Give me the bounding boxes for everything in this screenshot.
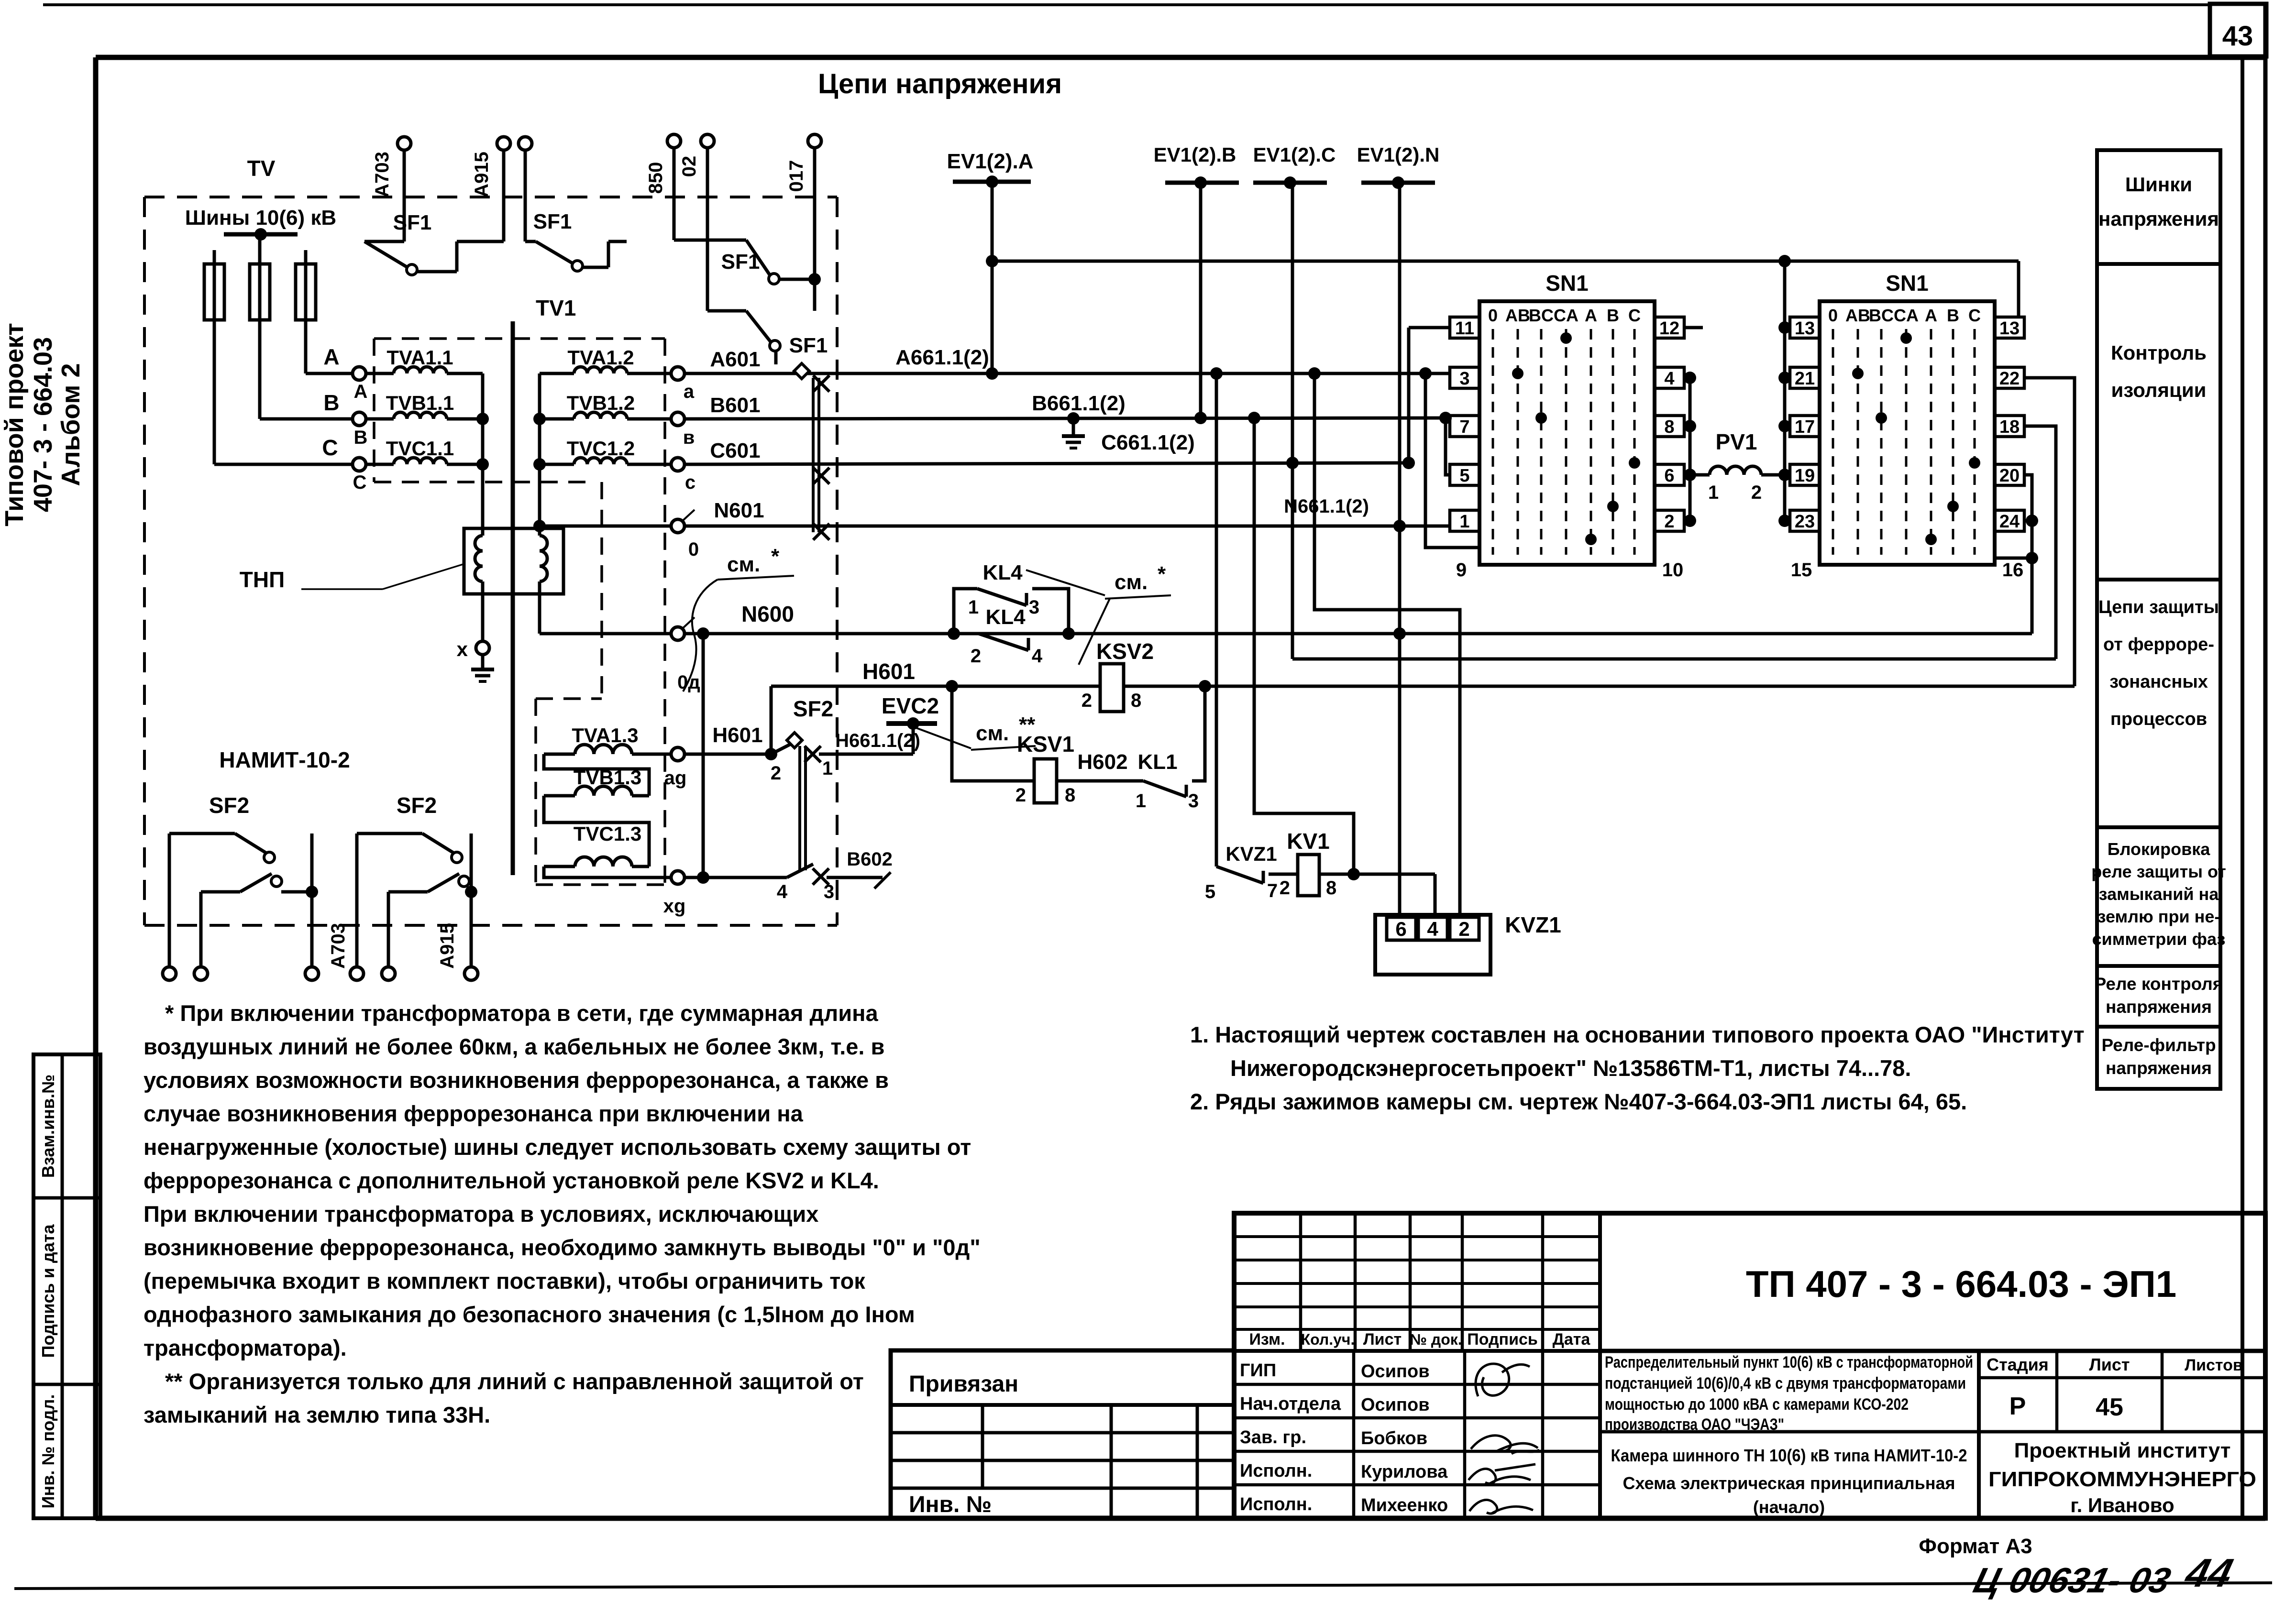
svg-text:SF1: SF1 [533, 210, 572, 233]
terminal 0д (N600) [671, 627, 684, 640]
junction H601-KSV1 branch [946, 680, 958, 692]
SN1 contact dots [1900, 332, 1912, 344]
svg-text:4: 4 [1664, 369, 1674, 389]
svg-text:мощностью до 1000 кВА с камера: мощностью до 1000 кВА с камерами КСО-202 [1605, 1395, 1909, 1414]
wire chain pins 4-8-6-2 [1689, 378, 1692, 521]
svg-text:Инв. №: Инв. № [909, 1492, 992, 1517]
svg-text:Блокировка: Блокировка [2108, 839, 2211, 859]
svg-text:B661.1(2): B661.1(2) [1032, 392, 1126, 415]
svg-text:4: 4 [777, 881, 788, 902]
inner right frame line [2241, 57, 2244, 1518]
svg-text:TVB1.1: TVB1.1 [386, 392, 454, 414]
wire pins 20-24-16 to N600 [2024, 475, 2032, 634]
switch SF1 group c pole 2 [706, 148, 709, 311]
svg-text:замыканий на землю типа 33Н.: замыканий на землю типа 33Н. [143, 1402, 490, 1427]
svg-text:Типовой проект: Типовой проект [0, 323, 29, 526]
terminal A703 top [397, 137, 411, 150]
fuse F3 phase A [296, 264, 316, 320]
switch SF1 group a [403, 150, 406, 241]
THP winding right [540, 536, 547, 581]
svg-text:19: 19 [1795, 466, 1815, 486]
svg-text:Зав. гр.: Зав. гр. [1240, 1427, 1306, 1447]
svg-text:TV: TV [247, 156, 276, 181]
svg-text:B601: B601 [710, 394, 760, 417]
svg-text:Камера шинного ТН 10(6) кВ тип: Камера шинного ТН 10(6) кВ типа НАМИТ-10… [1611, 1446, 1967, 1465]
TV1 core line [511, 321, 515, 875]
svg-text:SF2: SF2 [397, 793, 437, 818]
svg-text:Шины 10(6) кВ: Шины 10(6) кВ [185, 206, 336, 230]
svg-text:A: A [1585, 306, 1597, 325]
svg-text:TVC1.3: TVC1.3 [574, 822, 641, 845]
wire B661 to relay KV1 [1254, 418, 1354, 874]
jumper wire 0д to xg [702, 634, 705, 877]
svg-text:C601: C601 [710, 439, 760, 462]
svg-text:Бобков: Бобков [1361, 1428, 1427, 1448]
wire A601/A661.1(2) [684, 372, 1449, 375]
svg-text:1: 1 [1136, 790, 1146, 811]
no-connection slash on B602 [874, 872, 891, 888]
svg-text:45: 45 [2096, 1393, 2123, 1421]
terminal в [671, 412, 684, 426]
svg-text:напряжения: напряжения [2098, 208, 2219, 230]
wire EV1(2).B down [1199, 183, 1203, 418]
function box Реле контроля напряжения [2097, 966, 2220, 1027]
svg-text:Контроль: Контроль [2111, 341, 2207, 364]
object description cell [1600, 1430, 1979, 1434]
wire A661 to pin 9 [1425, 373, 1479, 548]
svg-text:2: 2 [1016, 785, 1026, 806]
svg-text:18: 18 [1999, 417, 2020, 437]
signature squiggles [1476, 1364, 1530, 1396]
svg-text:1: 1 [1708, 482, 1719, 503]
svg-text:23: 23 [1795, 512, 1815, 532]
ground on B661 [1067, 412, 1080, 425]
svg-text:3: 3 [1188, 790, 1199, 811]
svg-text:EVC2: EVC2 [882, 693, 939, 718]
terminal top aux [519, 137, 532, 150]
svg-text:однофазного замыкания до безоп: однофазного замыкания до безопасного зна… [143, 1302, 915, 1327]
svg-text:H602: H602 [1077, 750, 1127, 774]
svg-text:1: 1 [1459, 512, 1469, 532]
svg-text:N601: N601 [714, 499, 764, 522]
svg-text:A703: A703 [372, 152, 393, 197]
svg-text:1: 1 [822, 758, 833, 779]
svg-text:Изм.: Изм. [1249, 1330, 1285, 1349]
svg-text:B: B [1947, 306, 1959, 325]
svg-text:CA: CA [1554, 306, 1578, 325]
svg-text:KL4: KL4 [985, 605, 1026, 629]
svg-text:PV1: PV1 [1716, 429, 1757, 454]
svg-text:SN1: SN1 [1545, 271, 1588, 296]
svg-text:Дата: Дата [1553, 1330, 1591, 1349]
svg-text:4: 4 [1032, 646, 1043, 667]
svg-text:a: a [684, 381, 695, 402]
svg-text:10: 10 [1662, 559, 1684, 581]
SF2 terminals [168, 833, 171, 967]
svg-text:EV1(2).C: EV1(2).C [1253, 143, 1336, 166]
breaker SF2 in B602 [787, 864, 813, 877]
small table Привязан [891, 1350, 1234, 1518]
switch SF1 group b [502, 150, 506, 241]
SN1 contact dots [1560, 332, 1572, 344]
svg-text:от ферроре-: от ферроре- [2103, 635, 2214, 655]
wire EV1(2).N down to connector KVZ1 pin 6 [1398, 183, 1402, 915]
terminal A915 top [497, 137, 510, 150]
svg-text:x: x [457, 638, 468, 660]
svg-text:ТП 407 - 3 - 664.03 - ЭП1: ТП 407 - 3 - 664.03 - ЭП1 [1746, 1263, 2176, 1305]
wire pin 22 to H601 [2024, 378, 2075, 686]
wire N601/N661.1(2) [684, 525, 1449, 528]
svg-text:ГИП: ГИП [1240, 1360, 1276, 1381]
svg-text:8: 8 [1065, 785, 1075, 806]
svg-text:TVA1.2: TVA1.2 [567, 346, 634, 369]
svg-text:см.: см. [976, 722, 1009, 745]
svg-text:TV1: TV1 [536, 296, 576, 320]
svg-text:AB: AB [1505, 306, 1530, 325]
svg-text:2: 2 [1664, 512, 1674, 532]
svg-text:A: A [323, 344, 339, 369]
THP winding left [475, 536, 483, 581]
svg-text:6: 6 [1395, 918, 1406, 940]
svg-text:№ док.: № док. [1410, 1331, 1462, 1348]
svg-text:SN1: SN1 [1886, 271, 1928, 296]
svg-text:Кол.уч.: Кол.уч. [1301, 1331, 1355, 1348]
svg-text:N661.1(2): N661.1(2) [1284, 496, 1369, 517]
svg-text:3: 3 [1459, 369, 1469, 389]
svg-text:43: 43 [2222, 21, 2253, 52]
transformer THP box [464, 528, 563, 594]
svg-text:13: 13 [1999, 318, 2020, 339]
TV1 winding dashed box [374, 337, 665, 340]
svg-text:изоляции: изоляции [2111, 379, 2207, 401]
svg-text:850: 850 [645, 162, 666, 194]
wire H601 [771, 685, 2075, 688]
fuse F1 phase C [204, 264, 224, 320]
wire B602 [684, 876, 787, 879]
svg-text:0: 0 [1828, 306, 1838, 325]
contact KL4 upper branch [954, 589, 977, 634]
wire C601/C661.1(2) [684, 463, 1409, 464]
svg-text:H601: H601 [712, 724, 762, 747]
voltmeter switch SN1 body [1820, 301, 1995, 565]
svg-text:TVC1.1: TVC1.1 [386, 437, 454, 460]
switch SF1 group c pole 1 [673, 148, 676, 240]
svg-text:TVA1.1: TVA1.1 [386, 346, 453, 369]
svg-text:производства ОАО "ЧЭАЗ": производства ОАО "ЧЭАЗ" [1605, 1415, 1784, 1434]
wire phase B from fuse to TV1 [260, 417, 353, 421]
svg-text:Исполн.: Исполн. [1240, 1461, 1312, 1481]
svg-text:6: 6 [1664, 466, 1674, 486]
wire KSV1 branch [952, 686, 1034, 781]
svg-text:Исполн.: Исполн. [1240, 1494, 1312, 1514]
secondary neutral wire [538, 373, 541, 536]
TV cubicle dashed enclosure [144, 196, 837, 198]
svg-text:A: A [354, 381, 368, 402]
svg-text:Распределительный пункт 10(6): Распределительный пункт 10(6) кВ с транс… [1605, 1353, 1973, 1371]
wire 017 down [813, 148, 817, 279]
connector KVZ1 [1375, 915, 1490, 975]
SF2 terminals [355, 833, 359, 967]
svg-text:ТНП: ТНП [240, 567, 285, 592]
svg-text:A: A [1925, 306, 1937, 325]
svg-text:Листов: Листов [2185, 1356, 2243, 1374]
svg-text:20: 20 [1999, 466, 2020, 486]
svg-text:3: 3 [824, 881, 834, 902]
wire A661 to connector KVZ1 pin 2 [1314, 373, 1460, 915]
terminal ag [671, 747, 684, 761]
document number ТП 407-3-664.03-ЭП1 [1600, 1349, 2265, 1353]
svg-text:симметрии фаз: симметрии фаз [2092, 929, 2226, 949]
svg-text:BC: BC [1529, 306, 1554, 325]
svg-text:Привязан: Привязан [909, 1371, 1018, 1397]
terminal x [476, 641, 489, 655]
svg-text:феррорезонанса с дополнительно: феррорезонанса с дополнительной установк… [143, 1168, 879, 1193]
svg-text:13: 13 [1795, 318, 1815, 339]
svg-text:SF2: SF2 [209, 793, 249, 818]
main title block [1234, 1213, 2265, 1518]
TV1 tertiary dashed box [536, 697, 602, 700]
tertiary snake wire 3 [544, 866, 671, 877]
voltmeter switch SN1 body [1479, 301, 1655, 565]
svg-text:SF2: SF2 [793, 696, 833, 721]
primary neutral wire [481, 373, 485, 536]
wire KV1 to connector pin 4 [1319, 873, 1435, 876]
svg-text:C: C [1968, 306, 1981, 325]
wire A661 to relay KVZ1 contact [1215, 373, 1218, 866]
svg-text:C: C [1628, 306, 1641, 325]
sheet number box [2210, 4, 2266, 56]
svg-text:возникновение феррорезонанса,: возникновение феррорезонанса, необходимо… [143, 1235, 981, 1260]
svg-text:EV1(2).N: EV1(2).N [1357, 143, 1440, 166]
svg-text:Альбом 2: Альбом 2 [56, 363, 85, 486]
svg-text:(начало): (начало) [1753, 1497, 1825, 1517]
wire pin 13 right from EV1A line [2017, 261, 2020, 317]
svg-text:KSV2: KSV2 [1096, 639, 1154, 664]
svg-text:KVZ1: KVZ1 [1505, 912, 1561, 937]
svg-text:0: 0 [1488, 306, 1498, 325]
svg-text:2: 2 [1082, 690, 1092, 711]
svg-text:ГИПРОКОММУНЭНЕРГО: ГИПРОКОММУНЭНЕРГО [1988, 1468, 2256, 1491]
svg-text:B: B [354, 427, 368, 448]
svg-text:9: 9 [1456, 559, 1467, 581]
fuse F2 phase B [250, 264, 270, 320]
svg-text:2: 2 [971, 646, 981, 667]
wire H661.1(2) [819, 753, 913, 756]
svg-text:TVB1.2: TVB1.2 [567, 392, 635, 414]
svg-text:SF1: SF1 [721, 250, 760, 274]
svg-text:A915: A915 [471, 152, 492, 197]
wire B601/B661.1(2) [684, 418, 1449, 419]
svg-text:24: 24 [1999, 512, 2020, 532]
svg-text:3: 3 [1029, 597, 1039, 618]
svg-text:см.: см. [1115, 570, 1148, 594]
svg-text:*: * [771, 545, 780, 568]
svg-text:KV1: KV1 [1287, 829, 1329, 854]
function box Контроль изоляции [2097, 264, 2220, 580]
svg-text:Цепи защиты: Цепи защиты [2098, 597, 2219, 617]
svg-text:Осипов: Осипов [1361, 1361, 1430, 1382]
svg-text:2: 2 [771, 763, 781, 784]
svg-text:трансформатора).: трансформатора). [143, 1335, 347, 1360]
SN1 dashed columns [1492, 329, 1494, 555]
svg-text:21: 21 [1795, 369, 1815, 389]
SF2 linkage [798, 746, 801, 870]
wire H602 [1057, 779, 1143, 783]
svg-text:1: 1 [968, 597, 979, 618]
svg-text:16: 16 [2002, 559, 2024, 581]
svg-text:12: 12 [1659, 318, 1679, 339]
THP left lead to ground [481, 581, 485, 641]
svg-text:4: 4 [1427, 918, 1438, 940]
function box Реле-фильтр напряжения [2097, 1027, 2220, 1089]
svg-text:Проектный институт: Проектный институт [2014, 1439, 2231, 1462]
svg-text:407- 3 - 664.03: 407- 3 - 664.03 [29, 337, 57, 512]
SN1 left pin boxes [1450, 317, 1479, 338]
svg-text:реле защиты от: реле защиты от [2091, 862, 2226, 881]
svg-text:5: 5 [1205, 881, 1215, 902]
wire chain pins 13-21-17-19-23 to EV1A line [1783, 261, 1787, 521]
svg-text:зонансных: зонансных [2109, 672, 2208, 692]
terminal 02 [701, 134, 714, 148]
svg-text:г. Иваново: г. Иваново [2070, 1494, 2174, 1516]
bus 10(6) kV [224, 232, 298, 237]
wire EV1(2).C extension [1292, 658, 2056, 661]
tertiary snake wire 1 [544, 754, 649, 796]
svg-text:* При включении трансформатора: * При включении трансформатора в сети, г… [165, 1000, 879, 1026]
svg-text:НАМИТ-10-2: НАМИТ-10-2 [219, 747, 350, 772]
svg-text:При включении трансформатора в: При включении трансформатора в условиях,… [143, 1201, 818, 1227]
svg-text:0: 0 [688, 539, 699, 560]
svg-text:15: 15 [1791, 559, 1812, 581]
svg-text:условиях возможности возникно: условиях возможности возникновения ферро… [143, 1067, 889, 1093]
SN1 right pin boxes [1655, 317, 1684, 338]
svg-text:02: 02 [679, 156, 700, 177]
svg-text:Лист: Лист [1363, 1330, 1402, 1349]
svg-text:Нижегородскэнергосетьпроект": Нижегородскэнергосетьпроект" №13586ТМ-Т1… [1230, 1055, 1911, 1081]
svg-text:Нач.отдела: Нач.отдела [1240, 1394, 1341, 1414]
svg-text:A601: A601 [710, 348, 760, 371]
svg-text:Цепи напряжения: Цепи напряжения [818, 68, 1062, 99]
wire EV1(2).A down [991, 182, 994, 373]
junction 017 pole [808, 273, 821, 285]
svg-text:2: 2 [1458, 918, 1469, 940]
function box Шинки напряжения [2097, 150, 2220, 264]
svg-text:Формат А3: Формат А3 [1919, 1535, 2032, 1558]
svg-text:TVC1.2: TVC1.2 [567, 437, 635, 460]
terminal xg [671, 871, 684, 884]
SN1 left pin boxes [1790, 317, 1820, 338]
svg-text:2: 2 [1751, 482, 1762, 503]
svg-text:Взам.инв.№: Взам.инв.№ [38, 1075, 58, 1178]
svg-text:ag: ag [664, 768, 687, 789]
svg-text:Реле контроля: Реле контроля [2095, 974, 2223, 994]
svg-text:Подпись: Подпись [1467, 1330, 1538, 1349]
svg-text:Осипов: Осипов [1361, 1395, 1430, 1415]
svg-text:SF1: SF1 [393, 211, 432, 234]
svg-text:Шинки: Шинки [2125, 173, 2192, 196]
svg-text:случае возникновения феррорезо: случае возникновения феррорезонанса при … [143, 1101, 804, 1126]
svg-text:AB: AB [1845, 306, 1870, 325]
wire pin 12 stub [1684, 326, 1703, 329]
svg-text:KVZ1: KVZ1 [1225, 843, 1277, 865]
svg-text:SF1: SF1 [789, 334, 828, 357]
svg-text:7: 7 [1459, 417, 1469, 437]
svg-text:ненагруженные (холостые) шины: ненагруженные (холостые) шины следует ис… [143, 1134, 971, 1160]
terminal 017 [808, 134, 821, 148]
svg-text:*: * [1158, 562, 1166, 586]
svg-text:C: C [322, 435, 338, 460]
wire EV1(2).C down [1291, 183, 1294, 659]
svg-text:подстанцией 10(6)/0,4 кВ с дву: подстанцией 10(6)/0,4 кВ с двумя трансфо… [1605, 1374, 1966, 1393]
drawing sheet top edge line [43, 3, 2210, 6]
wire pin11 to C661 [1407, 328, 1411, 463]
svg-text:A703: A703 [328, 923, 349, 969]
svg-text:воздушных линий не более 60км,: воздушных линий не более 60км, а кабельн… [143, 1034, 884, 1059]
svg-text:землю при не-: землю при не- [2097, 907, 2220, 926]
function box Цепи защиты от феррорезонансных процессов [2097, 580, 2220, 827]
svg-text:8: 8 [1131, 690, 1141, 711]
svg-text:процессов: процессов [2110, 709, 2207, 729]
tertiary snake wire 2 [544, 796, 649, 866]
svg-text:** Организуется только для лин: ** Организуется только для линий с напра… [165, 1369, 864, 1394]
function box Блокировка реле защиты [2097, 827, 2220, 966]
svg-text:A661.1(2): A661.1(2) [895, 346, 989, 369]
left attribute boxes column [33, 1054, 100, 1518]
svg-text:Лист: Лист [2089, 1355, 2130, 1374]
contact KL4 lower in N600 [979, 634, 1028, 650]
role rows [1234, 1383, 1600, 1386]
svg-text:B: B [1607, 306, 1619, 325]
svg-text:EV1(2).A: EV1(2).A [947, 150, 1034, 173]
terminal c [671, 458, 684, 471]
svg-text:(перемычка входит в комплект п: (перемычка входит в комплект поставки), … [143, 1268, 865, 1294]
svg-text:замыканий на: замыканий на [2099, 884, 2219, 904]
svg-text:B: B [323, 390, 339, 415]
svg-text:2. Ряды зажимов камеры см. че: 2. Ряды зажимов камеры см. чертеж №407-3… [1190, 1089, 1967, 1114]
terminal C of TV1 primary [353, 458, 366, 471]
svg-text:напряжения: напряжения [2106, 997, 2212, 1017]
svg-text:xg: xg [663, 896, 686, 917]
svg-text:A915: A915 [437, 923, 458, 969]
svg-text:BC: BC [1869, 306, 1894, 325]
svg-text:c: c [685, 472, 695, 493]
svg-text:KL1: KL1 [1137, 750, 1177, 774]
bus junction node [254, 228, 267, 241]
terminal a [671, 367, 684, 380]
svg-text:2: 2 [1280, 877, 1290, 899]
svg-text:7: 7 [1267, 880, 1278, 901]
handwritten inventory number [1970, 1551, 2237, 1600]
svg-text:5: 5 [1459, 466, 1469, 486]
svg-text:22: 22 [1999, 369, 2020, 389]
wire phase C from fuse to TV1 [214, 463, 353, 466]
svg-text:C: C [353, 472, 367, 493]
wire pin 18 to EV1C line [2024, 426, 2056, 659]
svg-text:CA: CA [1894, 306, 1919, 325]
svg-text:1. Настоящий чертеж составлен: 1. Настоящий чертеж составлен на основан… [1190, 1022, 2085, 1047]
SN1 right pin boxes [1995, 317, 2024, 338]
svg-text:8: 8 [1326, 877, 1336, 899]
svg-text:H661.1(2): H661.1(2) [835, 730, 920, 751]
terminal A of TV1 primary [353, 367, 366, 380]
ground symbol [481, 655, 485, 669]
svg-text:8: 8 [1664, 417, 1674, 437]
svg-text:H601: H601 [862, 659, 915, 684]
svg-text:напряжения: напряжения [2106, 1058, 2212, 1078]
svg-text:EV1(2).B: EV1(2).B [1154, 143, 1236, 166]
svg-text:Курилова: Курилова [1361, 1462, 1448, 1482]
svg-text:KSV1: KSV1 [1017, 732, 1074, 757]
